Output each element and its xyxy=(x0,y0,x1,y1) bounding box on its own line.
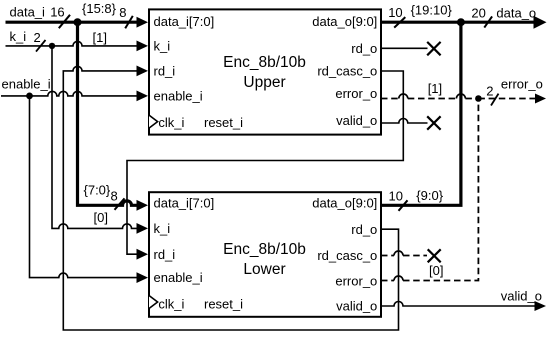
svg-text:reset_i: reset_i xyxy=(204,297,243,312)
svg-text:[1]: [1] xyxy=(428,81,442,96)
U1 pin label rd_i xyxy=(154,64,176,79)
svg-text:data_i[7:0]: data_i[7:0] xyxy=(154,196,215,211)
wire U2.error_o dashed xyxy=(381,99,478,281)
svg-text:rd_i: rd_i xyxy=(154,64,176,79)
U2 pin label data_i[7:0] xyxy=(154,196,215,211)
svg-text:[0]: [0] xyxy=(429,263,443,278)
svg-text:rd_o: rd_o xyxy=(351,41,377,56)
svg-text:16: 16 xyxy=(50,4,64,19)
svg-text:Upper: Upper xyxy=(243,74,285,91)
node enable_i junction xyxy=(26,93,33,100)
bus width 2 slash error xyxy=(491,94,499,106)
U2 pin label reset_i xyxy=(204,297,243,312)
label 20 xyxy=(471,6,485,21)
svg-text:valid_o: valid_o xyxy=(501,288,542,303)
svg-text:reset_i: reset_i xyxy=(204,115,243,130)
wire data_i bus input xyxy=(6,17,149,28)
svg-text:data_o: data_o xyxy=(496,5,536,20)
U1 clk chevron xyxy=(149,115,158,128)
wire rd feedback U2.rd_o to U1.rd_i xyxy=(63,66,398,331)
wire error_o output dashed xyxy=(478,94,546,104)
svg-text:8: 8 xyxy=(119,5,126,20)
svg-text:{19:10}: {19:10} xyxy=(411,3,453,18)
wire U1.rd_o unconnected xyxy=(381,42,441,55)
wire enable_i branch to U2 xyxy=(30,96,149,283)
svg-text:enable_i: enable_i xyxy=(2,77,51,92)
U2 pin label rd_o xyxy=(351,222,377,237)
wire U1.rd_casc_o to U2.rd_i xyxy=(127,71,403,260)
wire U2.rd_casc_o unconnected dashed xyxy=(381,249,441,262)
U1 pin label k_i xyxy=(154,39,171,54)
wire k_i input xyxy=(6,41,149,52)
svg-text:rd_casc_o: rd_casc_o xyxy=(317,64,377,79)
U1 pin label reset_i xyxy=(204,115,243,130)
label 16 xyxy=(50,4,64,19)
svg-text:Enc_8b/10b: Enc_8b/10b xyxy=(223,54,306,71)
bus width 10 slash upper xyxy=(394,17,405,28)
node error_o junction xyxy=(475,95,482,102)
svg-text:{9:0}: {9:0} xyxy=(416,188,443,203)
svg-text:2: 2 xyxy=(486,84,493,99)
U1 pin label rd_casc_o xyxy=(317,64,377,79)
wire k_i branch to U2 xyxy=(52,46,148,234)
wire data_i[7:0] branch to U2 xyxy=(78,22,149,211)
svg-text:error_o: error_o xyxy=(335,86,377,101)
svg-text:data_i: data_i xyxy=(10,4,46,19)
U1 pin label data_i[7:0] xyxy=(154,14,215,29)
node k_i junction xyxy=(49,43,55,49)
U1 pin label enable_i xyxy=(154,89,203,104)
bus width 2 slash k xyxy=(36,40,46,52)
U2 clk chevron xyxy=(149,296,158,309)
svg-text:10: 10 xyxy=(388,5,402,20)
svg-text:20: 20 xyxy=(471,6,485,21)
svg-text:error_o: error_o xyxy=(335,273,377,288)
svg-text:Lower: Lower xyxy=(243,261,285,278)
svg-text:enable_i: enable_i xyxy=(154,89,203,104)
wire U1.valid_o unconnected xyxy=(381,116,441,129)
label data_i xyxy=(10,4,46,19)
label 8 xyxy=(119,5,126,20)
U1 pin label valid_o xyxy=(336,113,377,128)
svg-text:{7:0}: {7:0} xyxy=(84,182,111,197)
label [1] xyxy=(93,30,107,45)
U2 pin label data_o[9:0] xyxy=(312,196,377,211)
bus width 10 slash lower xyxy=(399,200,408,211)
svg-text:2: 2 xyxy=(34,30,41,45)
U2 pin label rd_casc_o xyxy=(317,248,377,263)
label valid_o xyxy=(501,288,542,303)
svg-text:data_o[9:0]: data_o[9:0] xyxy=(312,14,377,29)
bus width 20 slash xyxy=(484,16,492,27)
U2 pin label clk_i xyxy=(158,297,184,312)
svg-text:valid_o: valid_o xyxy=(336,299,377,314)
svg-text:{15:8}: {15:8} xyxy=(82,1,117,16)
label {15:8} xyxy=(82,1,117,16)
label error_o xyxy=(501,77,543,92)
label 10 xyxy=(388,5,402,20)
U1 pin label clk_i xyxy=(158,115,184,130)
svg-text:rd_casc_o: rd_casc_o xyxy=(317,248,377,263)
block U1 Enc_8b/10b Upper xyxy=(149,9,381,134)
U2 pin label rd_i xyxy=(154,247,176,262)
label {7:0} xyxy=(84,182,111,197)
label 8 lower xyxy=(111,189,118,204)
label {19:10} xyxy=(411,3,453,18)
U2 pin label valid_o xyxy=(336,299,377,314)
label enable_i xyxy=(2,77,51,92)
bus width 16 slash xyxy=(59,15,70,28)
label 2 xyxy=(34,30,41,45)
node data_o junction xyxy=(457,18,465,26)
svg-text:k_i: k_i xyxy=(154,39,171,54)
svg-text:10: 10 xyxy=(389,189,403,204)
wire U1.error_o dashed xyxy=(381,94,475,99)
bus width 8 slash lower xyxy=(115,198,125,209)
svg-text:rd_i: rd_i xyxy=(154,247,176,262)
U1 pin label rd_o xyxy=(351,41,377,56)
svg-text:clk_i: clk_i xyxy=(158,115,184,130)
U2 pin label k_i xyxy=(154,221,171,236)
label data_o xyxy=(496,5,536,20)
svg-text:data_i[7:0]: data_i[7:0] xyxy=(154,14,215,29)
node data_i junction xyxy=(74,18,82,26)
label 2 error xyxy=(486,84,493,99)
svg-text:rd_o: rd_o xyxy=(351,222,377,237)
svg-text:8: 8 xyxy=(111,189,118,204)
U2 pin label error_o xyxy=(335,273,377,288)
label [0] xyxy=(94,210,108,225)
svg-text:error_o: error_o xyxy=(501,77,543,92)
label {9:0} xyxy=(416,188,443,203)
wire data_o bus U2 to junction xyxy=(381,22,461,205)
bus width 8 slash upper xyxy=(125,16,133,28)
block U2 Enc_8b/10b Lower xyxy=(149,192,381,317)
label [1] right xyxy=(428,81,442,96)
wire U2.valid_o output xyxy=(381,301,546,311)
svg-text:[0]: [0] xyxy=(94,210,108,225)
U1 pin label error_o xyxy=(335,86,377,101)
label k_i xyxy=(10,29,27,44)
wire enable_i input xyxy=(1,91,148,102)
svg-text:k_i: k_i xyxy=(10,29,27,44)
svg-text:k_i: k_i xyxy=(154,221,171,236)
svg-text:[1]: [1] xyxy=(93,30,107,45)
wire data_o bus U1 output xyxy=(381,16,547,29)
U1 pin label data_o[9:0] xyxy=(312,14,377,29)
svg-text:data_o[9:0]: data_o[9:0] xyxy=(312,196,377,211)
label 10 lower xyxy=(389,189,403,204)
svg-text:enable_i: enable_i xyxy=(154,270,203,285)
label [0] right xyxy=(429,263,443,278)
svg-text:valid_o: valid_o xyxy=(336,113,377,128)
svg-text:Enc_8b/10b: Enc_8b/10b xyxy=(223,241,306,258)
svg-text:clk_i: clk_i xyxy=(158,297,184,312)
U2 pin label enable_i xyxy=(154,270,203,285)
